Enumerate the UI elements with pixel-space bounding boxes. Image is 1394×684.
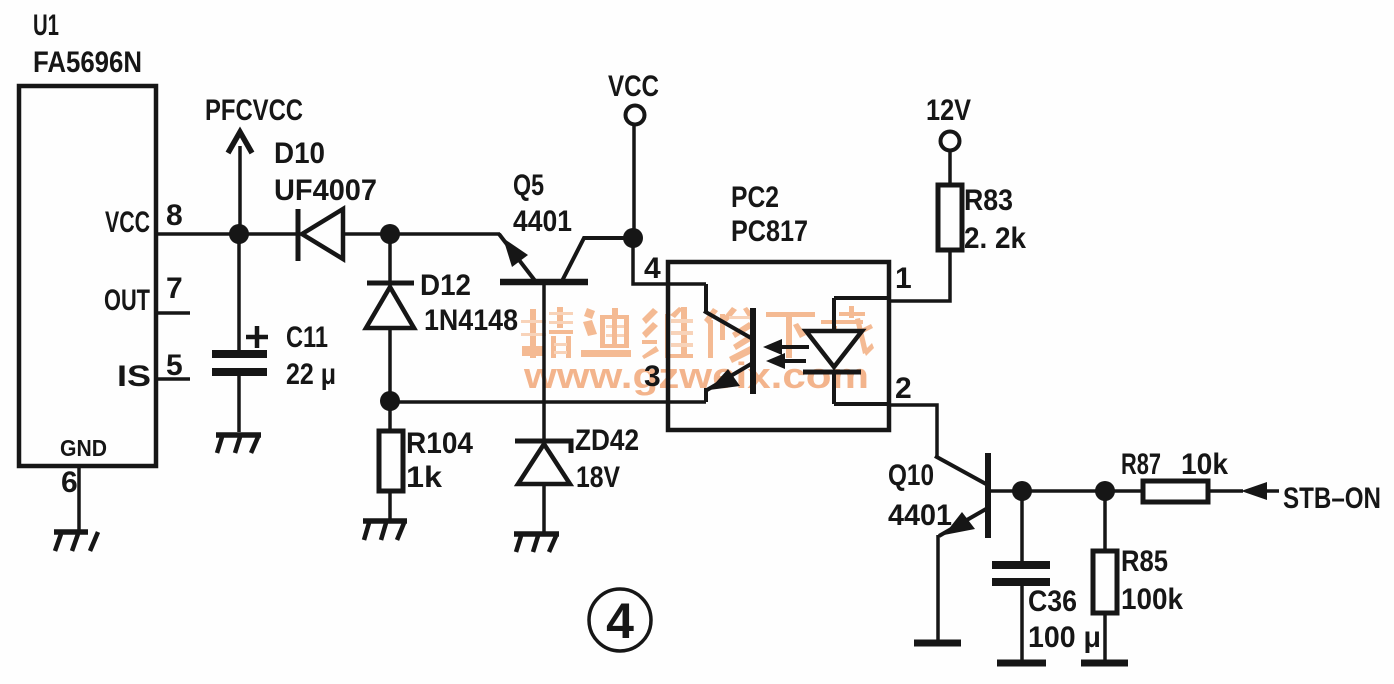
svg-text:Q10: Q10 bbox=[888, 459, 934, 492]
op-amp U1 label bbox=[33, 9, 142, 79]
svg-text:100k: 100k bbox=[1121, 583, 1183, 616]
svg-text:22 μ: 22 μ bbox=[286, 358, 336, 391]
LED inside PC2 bbox=[803, 298, 889, 404]
wire Q10 emitter to ground bbox=[936, 535, 940, 643]
resistor R104 labels bbox=[406, 427, 473, 494]
pin IS 5 of U1 bbox=[117, 349, 190, 393]
svg-text:ZD42: ZD42 bbox=[575, 424, 639, 457]
resistor R104 body bbox=[379, 431, 403, 491]
ground under U1 pin 6 bbox=[54, 532, 98, 551]
zener diode ZD42 labels bbox=[575, 424, 639, 494]
svg-text:12V: 12V bbox=[926, 94, 971, 127]
svg-text:STB–ON: STB–ON bbox=[1283, 482, 1381, 515]
svg-text:7: 7 bbox=[166, 272, 183, 305]
wire VCC pin8 row bbox=[156, 232, 296, 236]
wire VCC to junction bbox=[632, 125, 636, 238]
wire C11 to ground bbox=[237, 376, 241, 432]
transistor Q10 symbol bbox=[935, 453, 988, 538]
node lower wire junction bbox=[380, 391, 400, 411]
arrow STB-ON bbox=[1241, 482, 1267, 500]
ground under ZD42 bbox=[514, 534, 559, 552]
wire node to C11 bbox=[237, 234, 241, 350]
capacitor C36 symbol bbox=[992, 561, 1050, 586]
pin GND 6 of U1 bbox=[60, 435, 107, 499]
svg-text:R85: R85 bbox=[1121, 545, 1168, 578]
svg-text:R87: R87 bbox=[1121, 448, 1161, 481]
svg-text:5: 5 bbox=[166, 349, 183, 382]
svg-text:R83: R83 bbox=[964, 184, 1013, 217]
resistor R83 body bbox=[938, 185, 962, 250]
svg-text:PFCVCC: PFCVCC bbox=[205, 94, 303, 127]
capacitor C11 labels bbox=[286, 321, 336, 391]
wire R85 to ground bbox=[1103, 613, 1107, 663]
ground bar under Q10 bbox=[914, 640, 961, 647]
wire lower row to PC2 pin3 bbox=[390, 400, 706, 404]
wire ZD42 to ground bbox=[542, 484, 546, 533]
svg-text:R104: R104 bbox=[406, 427, 473, 460]
svg-text:C36: C36 bbox=[1028, 585, 1077, 618]
wire C36 to ground bbox=[1020, 586, 1024, 663]
svg-text:1: 1 bbox=[895, 262, 912, 295]
VCC terminal circle bbox=[626, 106, 645, 125]
wire R83 to PC2 pin1 bbox=[889, 250, 950, 301]
svg-text:1k: 1k bbox=[406, 461, 442, 494]
svg-text:GND: GND bbox=[60, 435, 107, 461]
svg-text:18V: 18V bbox=[576, 461, 620, 494]
wire arrow tail bbox=[1267, 489, 1279, 493]
wire node to C36 bbox=[1020, 491, 1024, 561]
diode D12 labels bbox=[420, 269, 518, 337]
svg-text:VCC: VCC bbox=[105, 206, 150, 239]
svg-text:4401: 4401 bbox=[888, 499, 952, 532]
IC U1 body bbox=[19, 86, 156, 466]
wire 12V to R83 bbox=[948, 151, 952, 185]
phototransistor inside PC2 bbox=[704, 284, 753, 402]
wire Q10 base row bbox=[988, 489, 1143, 493]
svg-text:FA5696N: FA5696N bbox=[33, 46, 142, 79]
wire D10 to node bbox=[343, 232, 500, 236]
wire D12 anode to lower node bbox=[388, 328, 392, 401]
diode D12 symbol bbox=[366, 283, 414, 328]
wire R104 to ground bbox=[388, 491, 392, 520]
svg-text:2. 2k: 2. 2k bbox=[964, 222, 1026, 255]
resistor R85 body bbox=[1093, 551, 1117, 613]
wire node to D12 cathode bbox=[388, 234, 392, 283]
node VCC junction bbox=[623, 228, 643, 248]
wire U1 pin6 to ground bbox=[77, 466, 81, 531]
resistor R85 labels bbox=[1121, 545, 1183, 616]
svg-text:C11: C11 bbox=[286, 321, 328, 354]
svg-text:100 μ: 100 μ bbox=[1028, 621, 1101, 654]
svg-text:4: 4 bbox=[606, 593, 634, 649]
transistor Q5 symbol bbox=[499, 234, 630, 282]
svg-text:VCC: VCC bbox=[608, 70, 659, 103]
svg-text:U1: U1 bbox=[33, 9, 59, 42]
wire node to R104 bbox=[388, 401, 392, 431]
svg-text:6: 6 bbox=[61, 466, 78, 499]
svg-text:www.gzweix.com: www.gzweix.com bbox=[523, 355, 869, 396]
resistor R87 labels bbox=[1121, 448, 1228, 481]
svg-text:PC2: PC2 bbox=[731, 181, 779, 214]
capacitor C11 symbol bbox=[212, 326, 268, 376]
arrow PFCVCC head bbox=[228, 132, 252, 153]
transistor Q5 labels bbox=[513, 169, 572, 238]
wire PC2 pin2 to Q10 collector bbox=[889, 405, 937, 457]
svg-text:4401: 4401 bbox=[513, 205, 572, 238]
svg-text:3: 3 bbox=[644, 360, 661, 393]
page number circled 4 bbox=[589, 589, 651, 651]
capacitor C36 labels bbox=[1028, 585, 1101, 654]
pin VCC 8 of U1 bbox=[105, 199, 183, 239]
wire R87 to STB-ON arrow bbox=[1208, 489, 1243, 493]
pin OUT 7 of U1 bbox=[104, 272, 190, 317]
svg-text:1N4148: 1N4148 bbox=[424, 304, 518, 337]
ground under R104 bbox=[363, 521, 407, 540]
svg-text:UF4007: UF4007 bbox=[274, 174, 377, 207]
transistor Q10 labels bbox=[888, 459, 952, 532]
wire PFCVCC arrow shaft bbox=[238, 146, 242, 234]
light arrows inside PC2 bbox=[763, 339, 809, 369]
svg-text:D10: D10 bbox=[274, 137, 325, 170]
diode D10 labels bbox=[274, 137, 377, 207]
node D10 cathode-D12 junction bbox=[380, 224, 400, 244]
node C36 junction bbox=[1012, 481, 1032, 501]
svg-text:4: 4 bbox=[644, 252, 661, 285]
ground under C11 bbox=[216, 435, 261, 453]
ground bar under C36 bbox=[997, 660, 1046, 667]
watermark line 1 bbox=[521, 306, 874, 363]
svg-text:8: 8 bbox=[166, 199, 183, 232]
ground bar under R85 bbox=[1081, 660, 1128, 667]
12V terminal circle bbox=[941, 132, 960, 151]
svg-text:PC817: PC817 bbox=[731, 215, 808, 248]
wire Q5 base down to ZD42 bbox=[542, 282, 546, 441]
optocoupler PC2 labels bbox=[731, 181, 808, 248]
svg-text:OUT: OUT bbox=[104, 284, 150, 317]
svg-text:Q5: Q5 bbox=[513, 169, 544, 202]
svg-text:D12: D12 bbox=[420, 269, 471, 302]
svg-text:10k: 10k bbox=[1181, 448, 1228, 481]
zener diode ZD42 symbol bbox=[515, 441, 571, 484]
svg-text:2: 2 bbox=[895, 372, 912, 405]
svg-text:IS: IS bbox=[117, 360, 151, 393]
wire node to R85 bbox=[1103, 491, 1107, 551]
node at PFCVCC junction bbox=[229, 224, 249, 244]
node R85 junction bbox=[1095, 481, 1115, 501]
resistor R87 body bbox=[1143, 481, 1208, 502]
optocoupler PC2 box bbox=[668, 262, 889, 430]
resistor R83 labels bbox=[964, 184, 1026, 255]
diode D10 symbol bbox=[298, 209, 343, 261]
wire junction to PC2 pin4 bbox=[633, 238, 706, 284]
